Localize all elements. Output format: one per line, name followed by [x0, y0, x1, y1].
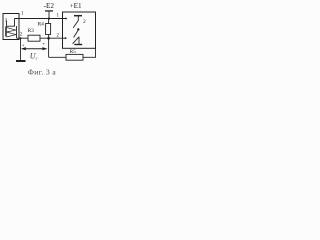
pivot node	[77, 28, 79, 30]
svg-text:+: +	[22, 44, 25, 49]
upper fixed contact T	[74, 15, 82, 17]
bottom rail wire	[49, 48, 96, 57]
Uc measure arrow	[22, 48, 46, 50]
node on wire A at E2 stem	[48, 17, 50, 19]
minus mark	[43, 42, 45, 45]
svg-text:Фиг. 3 а: Фиг. 3 а	[28, 68, 56, 76]
lower fixed contact T	[78, 37, 80, 45]
heater zigzag in box 1	[16, 26, 18, 38]
svg-text:2: 2	[83, 19, 86, 25]
svg-text:-E2: -E2	[44, 2, 55, 10]
sensor box 1	[3, 14, 19, 40]
node B-R4	[47, 37, 50, 40]
wire A (pin 1 rail)	[15, 18, 67, 20]
node B-left	[20, 37, 22, 39]
switch box 2	[63, 12, 96, 48]
svg-text:1: 1	[57, 14, 60, 19]
svg-text:Uc: Uc	[30, 52, 38, 61]
electrode bar in box 1	[5, 27, 7, 37]
contact stub node 2 in box 2	[65, 37, 67, 39]
output riser wire	[48, 38, 50, 57]
svg-text:2: 2	[20, 33, 23, 38]
lower contact arm	[73, 37, 79, 44]
wire B (pin 2 rail)	[17, 37, 66, 39]
ground	[16, 60, 26, 62]
svg-text:R4: R4	[38, 22, 45, 28]
svg-text:R3: R3	[28, 28, 35, 34]
svg-text:1: 1	[21, 12, 24, 17]
middle contact arm	[74, 30, 79, 37]
upper contact arm	[73, 21, 78, 28]
ground riser wire	[20, 38, 22, 60]
wire internal L of box 1	[7, 19, 15, 27]
contact stub node 1 in box 2	[65, 18, 67, 20]
svg-text:+E1: +E1	[70, 2, 82, 10]
